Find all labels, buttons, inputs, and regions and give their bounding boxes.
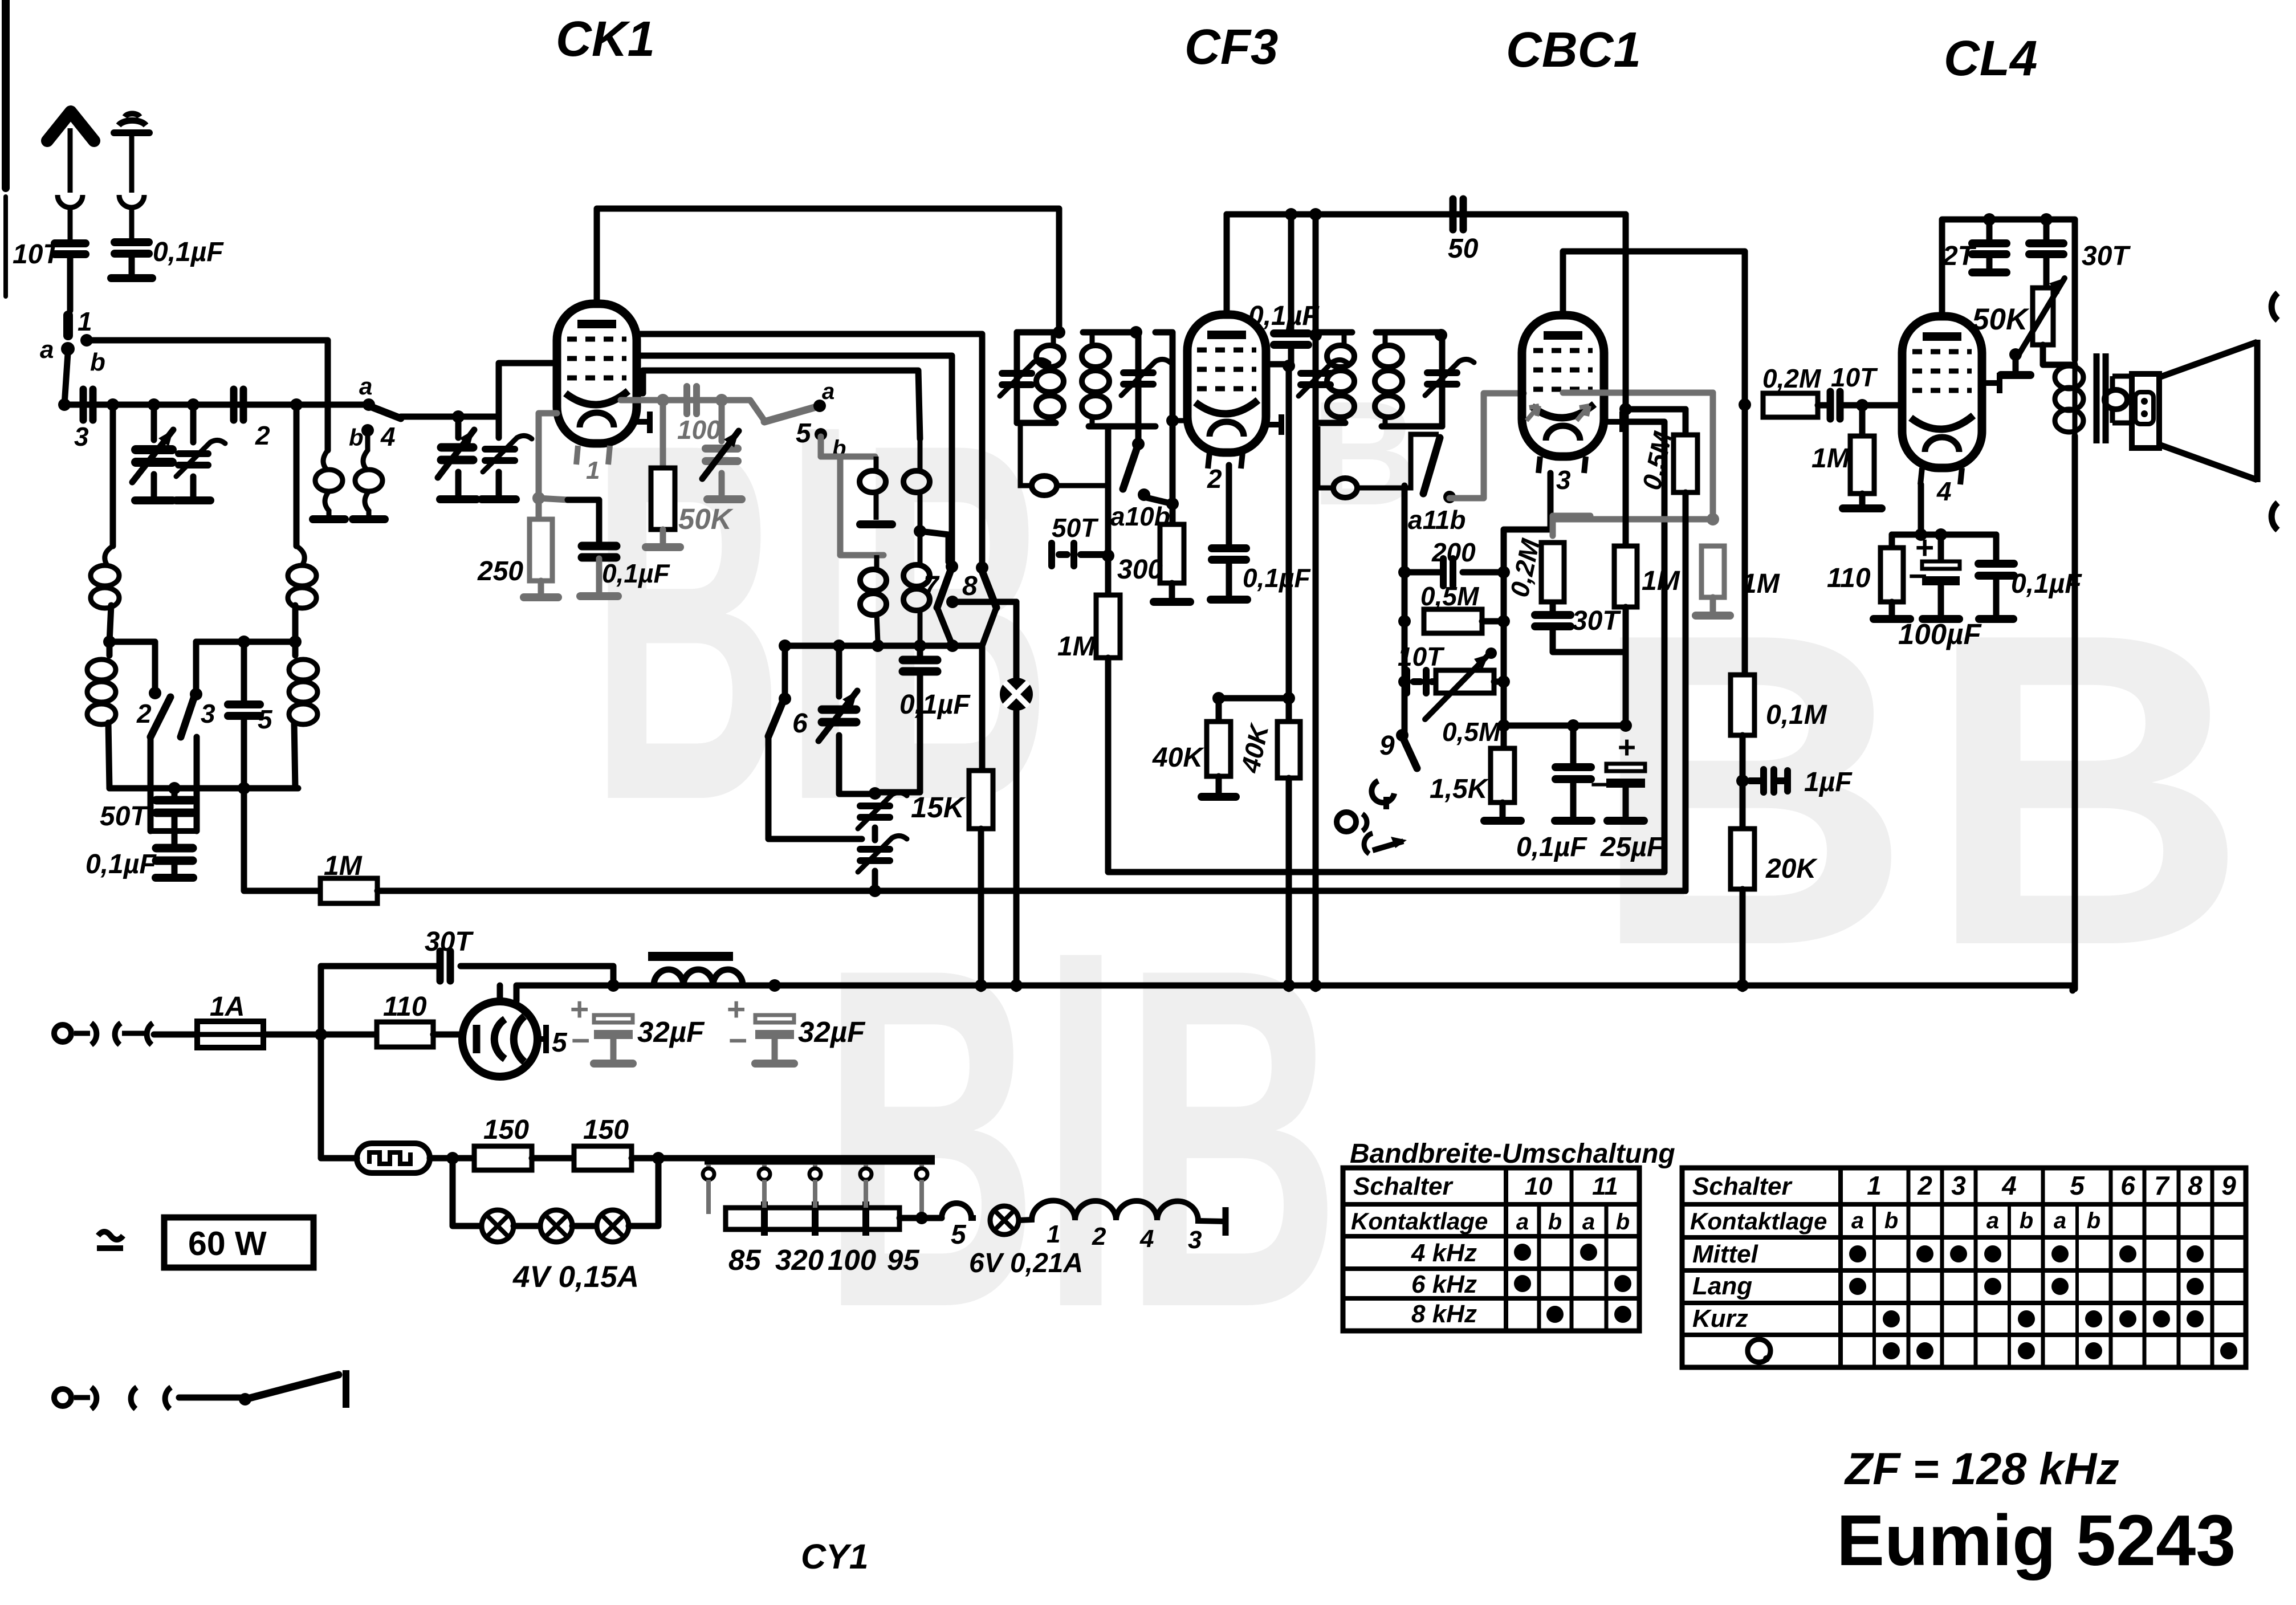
wire <box>190 476 197 497</box>
svg-text:7: 7 <box>2154 1171 2170 1200</box>
svg-text:10: 10 <box>1525 1172 1553 1200</box>
svg-text:B: B <box>1590 541 1911 1038</box>
label 7 <box>923 571 940 601</box>
wire <box>263 1032 377 1038</box>
svg-text:50K: 50K <box>678 503 734 535</box>
minus sign <box>728 1023 747 1059</box>
tube CBC1 <box>1522 315 1604 457</box>
coil osc right lower <box>903 531 930 646</box>
svg-text:8 kHz: 8 kHz <box>1411 1300 1477 1328</box>
stub <box>1173 418 1188 423</box>
wire from switch 1 a <box>64 353 68 405</box>
svg-text:0,5M: 0,5M <box>1442 717 1501 747</box>
wire <box>1553 626 1626 652</box>
label 1.5K <box>1430 774 1489 804</box>
svg-text:b: b <box>1616 1209 1630 1235</box>
svg-text:8: 8 <box>962 571 978 601</box>
svg-text:4 kHz: 4 kHz <box>1411 1239 1477 1267</box>
resistor 40K 2 <box>1277 722 1300 778</box>
minus sign <box>1590 767 1609 802</box>
svg-text:a: a <box>1851 1208 1864 1233</box>
node <box>1166 414 1179 427</box>
wire row <box>109 642 155 690</box>
label 2 <box>136 699 152 728</box>
resistor 0.2M <box>1541 543 1564 602</box>
node rail <box>1283 979 1295 992</box>
IFTA top left <box>1017 329 1059 336</box>
wire grey b5 <box>818 437 824 457</box>
node <box>1398 675 1411 688</box>
grey grid2 row <box>621 400 764 421</box>
node <box>1915 528 1927 541</box>
label CK1 <box>556 11 655 67</box>
coil RF left upper <box>105 546 113 565</box>
tap terminal 4 <box>860 1164 872 1208</box>
svg-text:1: 1 <box>1047 1220 1060 1248</box>
node <box>1619 719 1632 732</box>
wire <box>1938 535 1944 561</box>
wire <box>1226 561 1232 595</box>
svg-text:B: B <box>1927 541 2248 1038</box>
switch 3 lead <box>194 737 200 831</box>
coil IFTA primary <box>1036 332 1064 423</box>
label ZF <box>1844 1443 2119 1494</box>
svg-text:a: a <box>40 336 54 364</box>
svg-text:0,1µF: 0,1µF <box>2011 569 2082 599</box>
variable capacitor oscillator <box>819 691 857 741</box>
switch 8 blade <box>982 571 996 608</box>
svg-text:50T: 50T <box>1052 513 1099 543</box>
tap terminal 3 <box>809 1164 821 1208</box>
watermark <box>590 338 2248 1408</box>
svg-text:5: 5 <box>2070 1171 2085 1200</box>
grey divider drop <box>1710 393 1716 519</box>
wire <box>2013 355 2019 370</box>
node <box>1856 399 1868 412</box>
wire 0.5M top <box>1626 406 1686 413</box>
svg-text:100: 100 <box>828 1244 876 1276</box>
svg-text:3: 3 <box>1556 465 1571 495</box>
svg-text:6: 6 <box>792 708 808 739</box>
label 10T <box>13 239 62 270</box>
capacitor 0.1uF <box>156 848 193 861</box>
resistor 1.5K <box>1491 748 1515 802</box>
svg-text:60 W: 60 W <box>188 1225 267 1262</box>
node <box>946 639 959 652</box>
wire <box>108 723 109 788</box>
resistor 250 <box>530 519 552 581</box>
lamp loop <box>453 1158 482 1226</box>
svg-text:a: a <box>822 379 834 404</box>
svg-text:0,1µF: 0,1µF <box>86 849 157 879</box>
capacitor 50T IF <box>1052 543 1108 566</box>
resistor 15K <box>969 771 993 829</box>
resistor 150 b <box>574 1146 632 1170</box>
tapped resistor body <box>726 1201 899 1236</box>
switch 4 blade <box>372 407 401 418</box>
node <box>1983 213 1996 226</box>
choke core <box>648 952 733 961</box>
wire <box>455 472 462 495</box>
svg-text:Schalter: Schalter <box>1692 1172 1793 1200</box>
wire <box>294 723 295 788</box>
node <box>915 1212 928 1224</box>
svg-text:320: 320 <box>775 1244 824 1276</box>
svg-text:1M: 1M <box>1642 566 1680 596</box>
wire row 2 <box>196 639 295 645</box>
trimmer capacitor <box>483 435 532 472</box>
switch 6 contact <box>779 692 791 705</box>
svg-text:1A: 1A <box>210 992 245 1022</box>
svg-text:40K: 40K <box>1152 743 1204 773</box>
node <box>1102 549 1114 562</box>
node <box>779 639 791 652</box>
wire <box>1170 504 1176 524</box>
label 60 W <box>188 1225 267 1262</box>
svg-text:1: 1 <box>78 307 92 336</box>
label 150 <box>483 1115 529 1145</box>
label 1uF <box>1804 767 1853 797</box>
label 0.1uF <box>2011 569 2082 599</box>
label 0.1uF <box>1248 301 1320 331</box>
switch 3 blade <box>181 696 194 737</box>
plus sign <box>727 991 746 1028</box>
capacitor 32uF 1 <box>594 1015 633 1039</box>
capacitor 0.1uF CBC1 <box>1556 767 1591 779</box>
line 50 row <box>1227 211 1626 218</box>
svg-text:30T: 30T <box>1572 606 1621 636</box>
phono jack <box>1337 812 1407 854</box>
grid wire CBC1 <box>1450 393 1524 498</box>
label 5 <box>951 1220 967 1250</box>
svg-text:25µF: 25µF <box>1600 832 1664 862</box>
wire <box>1288 346 1294 366</box>
pilot lamp 2 <box>540 1210 572 1242</box>
ground <box>1874 615 1910 623</box>
svg-text:15K: 15K <box>911 791 966 824</box>
svg-text:a: a <box>1582 1209 1595 1235</box>
capacitor 2T <box>1972 243 2006 254</box>
switch mains pivot <box>239 1393 251 1406</box>
switch 6 blade <box>768 702 783 736</box>
wire <box>876 673 920 792</box>
label 1M <box>1057 632 1096 662</box>
svg-text:6 kHz: 6 kHz <box>1411 1270 1477 1298</box>
svg-text:50T: 50T <box>100 801 149 832</box>
label 15K <box>911 791 966 824</box>
ground <box>1923 615 1959 623</box>
30T loop <box>321 966 439 1034</box>
resistor 0.1M <box>1731 675 1754 735</box>
ground grey <box>1696 612 1730 620</box>
svg-text:3: 3 <box>201 699 215 728</box>
label 0.1uF <box>602 559 670 588</box>
tube CK1 pins <box>576 446 610 465</box>
row 200 b <box>1463 569 1504 576</box>
svg-text:150: 150 <box>583 1115 629 1145</box>
svg-text:3: 3 <box>1188 1226 1202 1254</box>
node <box>315 1028 327 1041</box>
svg-text:2: 2 <box>1092 1223 1106 1250</box>
wire <box>1993 535 2000 564</box>
svg-text:Lang: Lang <box>1692 1272 1752 1300</box>
tube CL4 <box>1902 316 1982 468</box>
label 0.5M pot <box>1442 717 1501 747</box>
switch 9 jaw <box>1371 781 1394 809</box>
switch 2 lead <box>148 737 154 831</box>
label 6V 0,21A <box>969 1248 1083 1278</box>
node <box>289 636 302 648</box>
node <box>1736 775 1749 787</box>
svg-text:9: 9 <box>2221 1171 2236 1200</box>
wire <box>1740 889 1746 989</box>
capacitor 10T <box>1407 670 1436 693</box>
wire <box>1216 776 1222 792</box>
node <box>168 782 181 795</box>
wire <box>1889 602 1895 614</box>
ground <box>111 274 152 282</box>
label 0.1M <box>1766 700 1827 730</box>
svg-text:BlB: BlB <box>821 867 1341 1407</box>
switch 3 contact <box>190 688 202 700</box>
dial lamp <box>1000 678 1033 711</box>
svg-text:CK1: CK1 <box>556 11 655 67</box>
label b <box>832 436 846 461</box>
wire <box>110 405 116 546</box>
wire b to oscillator coil <box>87 340 328 450</box>
label a10b <box>1110 502 1170 531</box>
svg-text:100: 100 <box>677 415 721 445</box>
label 30T <box>1572 606 1621 636</box>
label 95 <box>887 1244 919 1276</box>
wire box right up <box>1622 422 1664 872</box>
wire <box>190 405 197 442</box>
node grey <box>1707 513 1719 526</box>
label 110 <box>1827 563 1871 593</box>
wire <box>2043 254 2050 288</box>
wire coil box bottom <box>109 785 298 792</box>
wire <box>514 1223 540 1229</box>
ground <box>1979 615 2013 623</box>
ground grey <box>524 593 558 601</box>
pilot lamp 3 <box>597 1210 629 1242</box>
svg-text:4: 4 <box>380 422 396 451</box>
ground <box>1555 817 1591 825</box>
node <box>946 596 959 608</box>
table1 title <box>1350 1139 1675 1169</box>
earth symbol <box>114 113 149 242</box>
wire <box>401 414 499 420</box>
label 4 <box>380 422 396 451</box>
svg-text:2: 2 <box>255 421 270 450</box>
wire <box>129 254 135 274</box>
node <box>914 639 926 652</box>
heater chain 2 <box>1019 1200 1226 1236</box>
wire <box>1570 780 1577 816</box>
svg-text:0,1µF: 0,1µF <box>1243 563 1311 593</box>
wire to CK1 grid <box>499 363 557 417</box>
node <box>1497 566 1510 579</box>
label 2T <box>1942 241 1977 271</box>
label 3 <box>74 422 89 451</box>
variable capacitor tuning 2 <box>438 430 474 478</box>
svg-text:3: 3 <box>1951 1171 1966 1200</box>
wire <box>1286 778 1292 989</box>
mains plug upper <box>54 1023 153 1045</box>
wire screen <box>1266 361 1289 368</box>
ground <box>176 496 210 504</box>
svg-text:6V 0,21A: 6V 0,21A <box>969 1248 1083 1278</box>
svg-text:5: 5 <box>258 704 273 734</box>
row 05M b <box>1482 618 1504 625</box>
label 100uF <box>1898 618 1982 650</box>
svg-text:2T: 2T <box>1942 241 1977 271</box>
svg-text:1M: 1M <box>1811 443 1850 474</box>
wire <box>629 1158 658 1226</box>
variable capacitor tuning 1 <box>132 430 173 482</box>
switch 4 contact b <box>361 424 374 437</box>
label CBC1 <box>1506 22 1641 78</box>
svg-text:−: − <box>571 1023 590 1059</box>
resistor 1M CL4 <box>1850 436 1874 494</box>
label 100 <box>677 415 721 445</box>
capacitor 2 <box>234 389 243 420</box>
node <box>652 1152 665 1164</box>
svg-text:8: 8 <box>2188 1171 2203 1200</box>
node osc tap <box>914 525 926 537</box>
svg-text:5: 5 <box>552 1028 568 1058</box>
switch 5 contact b <box>815 428 827 441</box>
wire <box>836 646 842 696</box>
wire <box>179 1395 245 1401</box>
label 20K <box>1765 854 1818 884</box>
wire <box>1623 788 1629 816</box>
node <box>1132 438 1145 450</box>
wire <box>1993 577 2000 614</box>
label 50K <box>1972 303 2030 336</box>
ground <box>135 496 173 504</box>
IFTA bottom left <box>1017 420 1056 426</box>
wire grey <box>772 1039 778 1059</box>
switch 5 blade <box>764 407 816 422</box>
coil IFTA coupling <box>1020 423 1108 495</box>
ground <box>156 874 193 882</box>
tube CL4 pins <box>1920 468 1962 484</box>
wire <box>1740 735 1746 829</box>
switch 4 contact a <box>363 398 375 411</box>
svg-text:150: 150 <box>483 1115 529 1145</box>
label 32uF <box>637 1016 705 1048</box>
svg-text:ZF = 128 kHz: ZF = 128 kHz <box>1844 1443 2119 1494</box>
potentiometer 50K arrow <box>2017 278 2065 358</box>
tap terminal 2 <box>759 1164 770 1208</box>
ground grey <box>755 1060 794 1068</box>
wire <box>982 608 996 646</box>
wire grey <box>610 1039 617 1059</box>
wire <box>872 828 878 840</box>
coil osc right upper <box>903 439 930 530</box>
label 10T <box>1831 362 1878 392</box>
wire to 1M <box>244 788 320 891</box>
trimmer capacitor <box>176 440 225 476</box>
svg-text:110: 110 <box>383 992 427 1022</box>
IFTA top right <box>1083 329 1138 336</box>
wire <box>154 1032 197 1038</box>
capacitor 32uF 2 <box>755 1015 794 1039</box>
wire 15K <box>979 646 986 771</box>
svg-text:1M: 1M <box>1741 569 1780 599</box>
label 320 <box>775 1244 824 1276</box>
svg-text:7: 7 <box>923 571 940 601</box>
switch 7 contact <box>946 560 958 573</box>
resistor 0.5M AVC <box>1674 435 1697 492</box>
capacitor 3 <box>83 389 93 420</box>
switch 9 blade <box>1403 739 1417 768</box>
wire cathode CL4 <box>1921 484 1996 535</box>
label a11b <box>1408 505 1465 535</box>
capacitor 25uF <box>1606 764 1645 788</box>
AC symbol <box>97 1232 123 1248</box>
resistor 150 a <box>474 1146 532 1170</box>
IFTA trimmer primary <box>1000 360 1049 396</box>
wire grey <box>596 559 603 592</box>
grey osc wire 2 <box>840 457 884 555</box>
svg-text:300: 300 <box>1117 555 1163 585</box>
pilot lamp 1 <box>482 1210 514 1242</box>
svg-text:a: a <box>2054 1208 2066 1233</box>
wire grey <box>539 498 568 500</box>
wire <box>151 474 157 497</box>
cathode RC row <box>1504 723 1626 729</box>
wire switch6 loop <box>768 736 862 839</box>
coil IFTB primary <box>1327 332 1354 423</box>
capacitor 10T <box>55 243 86 254</box>
border edge <box>2 0 10 188</box>
anode line CK1 <box>597 209 1059 332</box>
wire <box>1623 607 1629 726</box>
svg-text:0,1M: 0,1M <box>1766 700 1827 730</box>
wire <box>1859 494 1866 504</box>
wire screen drop <box>1286 366 1292 722</box>
wire 0.2M branch <box>1550 549 1556 615</box>
wire grey <box>538 581 544 593</box>
svg-text:b: b <box>90 348 105 376</box>
IFTB primary feed <box>1313 214 1319 332</box>
node <box>187 398 200 411</box>
label 4 <box>1139 1225 1154 1253</box>
ground <box>1607 817 1644 825</box>
wire <box>782 646 788 696</box>
switch mains bar <box>343 1370 349 1408</box>
node grey <box>715 394 728 406</box>
wire <box>1986 254 1993 268</box>
feedback line upper <box>637 334 982 565</box>
capacitor 30T out <box>2029 243 2063 254</box>
svg-text:Bandbreite-Umschaltung: Bandbreite-Umschaltung <box>1350 1139 1675 1169</box>
node <box>1398 615 1411 628</box>
svg-text:20K: 20K <box>1765 854 1818 884</box>
svg-text:3: 3 <box>74 422 89 451</box>
label 0.2M <box>1762 364 1822 393</box>
svg-text:95: 95 <box>887 1244 919 1276</box>
wire <box>572 1223 597 1229</box>
node <box>833 639 845 652</box>
svg-text:0,5M: 0,5M <box>1420 581 1480 611</box>
label 0.5M rot <box>1636 429 1678 492</box>
coil upper right <box>288 565 316 608</box>
node <box>1739 398 1751 411</box>
IFTB trimmer secondary <box>1425 359 1474 396</box>
